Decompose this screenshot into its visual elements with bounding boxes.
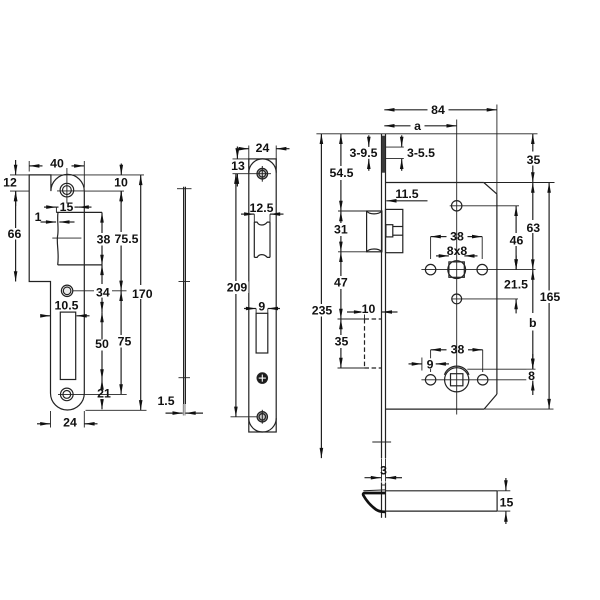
svg-text:84: 84: [431, 103, 445, 117]
case faceplate adjustable dark strip: [382, 136, 385, 173]
svg-text:15: 15: [60, 200, 74, 214]
dim 3-9.5: [347, 135, 381, 171]
svg-text:209: 209: [227, 281, 248, 295]
svg-text:13: 13: [231, 159, 245, 173]
svg-text:31: 31: [334, 223, 348, 237]
svg-text:24: 24: [63, 415, 77, 429]
svg-text:66: 66: [8, 227, 22, 241]
faceplate latch cutout: [254, 222, 270, 257]
svg-text:24: 24: [256, 141, 270, 155]
profile case bar: [386, 491, 498, 511]
dim 11.5: [386, 187, 427, 201]
strike bottom screw hole: [58, 388, 127, 401]
faceplate deadbolt slot: [256, 313, 268, 353]
svg-text:38: 38: [450, 230, 464, 244]
dim 84: [384, 103, 497, 117]
svg-text:3-5.5: 3-5.5: [407, 146, 435, 160]
svg-text:35: 35: [335, 335, 349, 349]
svg-text:38: 38: [451, 343, 465, 357]
strike extension lines: [10, 161, 147, 428]
dim 66: [6, 191, 25, 281]
dim 8x8: [436, 244, 478, 258]
svg-text:165: 165: [540, 290, 561, 304]
strike top screw hole: [57, 168, 84, 204]
follower hub: [448, 261, 466, 279]
svg-text:1: 1: [35, 210, 42, 224]
faceplate extension lines: [231, 146, 277, 417]
svg-text:10.5: 10.5: [55, 299, 79, 313]
dim 1.5: [157, 394, 203, 413]
dim 21.5: [503, 256, 530, 314]
dim b: [527, 270, 539, 370]
dim 235: [310, 134, 334, 458]
faceplate bottom screw hole: [257, 410, 267, 424]
svg-text:75: 75: [118, 335, 132, 349]
case extension lines: [338, 105, 555, 415]
svg-text:10: 10: [114, 176, 128, 190]
dim 3-5.5: [402, 135, 435, 171]
dim a: [384, 119, 456, 133]
svg-text:54.5: 54.5: [330, 166, 354, 180]
svg-text:170: 170: [132, 287, 153, 301]
dim 24 bottom: [37, 415, 98, 429]
profile bent lip: [363, 490, 385, 512]
dim 165: [538, 183, 563, 410]
dim 9: [409, 358, 450, 372]
dim 40: [29, 156, 84, 170]
dim 35 top right: [525, 134, 543, 183]
svg-text:38: 38: [97, 233, 111, 247]
case lower small hole: [452, 294, 462, 304]
case outline: [386, 183, 497, 410]
dim 38 upper: [431, 230, 483, 244]
cylinder side holes: [425, 375, 488, 385]
svg-text:9: 9: [427, 358, 434, 372]
dim 10.5: [42, 299, 90, 316]
dim 12: [3, 160, 17, 206]
strike side view plate: [183, 187, 185, 416]
svg-text:3: 3: [380, 464, 387, 478]
svg-text:46: 46: [510, 234, 524, 248]
dim chain 75.5/75 line: [113, 191, 140, 394]
dim 46: [507, 206, 526, 270]
dim 1: [35, 210, 75, 224]
deadbolt dashed: [365, 319, 382, 368]
faceplate outline: [249, 159, 276, 432]
svg-text:15: 15: [500, 495, 514, 509]
dim 10: [114, 164, 128, 203]
svg-text:10: 10: [362, 302, 376, 316]
dim 9 faceplate slot: [244, 300, 280, 314]
dim 38 lower: [431, 343, 483, 357]
case faceplate edge view: [372, 134, 391, 458]
dim 13: [230, 147, 247, 187]
dim 15: [497, 478, 513, 524]
strike middle screw hole: [61, 285, 126, 296]
dim 8: [526, 354, 537, 395]
latch bolt head: [367, 211, 382, 252]
dim 10 deadbolt: [347, 302, 398, 316]
svg-text:75.5: 75.5: [115, 232, 139, 246]
dim 15: [44, 200, 92, 214]
svg-text:12.5: 12.5: [250, 201, 274, 215]
dim 3 bottom: [365, 459, 403, 482]
svg-text:3-9.5: 3-9.5: [349, 146, 377, 160]
svg-text:47: 47: [334, 276, 348, 290]
dim 209: [225, 174, 249, 417]
dim chain 38/34/50/21 line: [94, 212, 112, 409]
svg-text:b: b: [529, 316, 537, 330]
svg-text:34: 34: [96, 286, 110, 300]
svg-text:21: 21: [97, 387, 111, 401]
dim chain 54.5/31/47/35 line: [327, 134, 357, 368]
case upper hole: [452, 201, 462, 211]
svg-text:35: 35: [527, 153, 541, 167]
case strike tab lines: [386, 147, 404, 159]
follower side holes: [425, 264, 487, 274]
svg-text:40: 40: [50, 156, 64, 170]
svg-text:1.5: 1.5: [157, 394, 174, 408]
svg-text:235: 235: [312, 304, 333, 318]
svg-text:63: 63: [526, 221, 540, 235]
cylinder hub: [444, 366, 469, 392]
dim 12.5: [241, 201, 284, 215]
strike latch opening: [52, 212, 102, 265]
svg-text:a: a: [414, 119, 421, 133]
svg-text:11.5: 11.5: [395, 187, 418, 201]
svg-text:21.5: 21.5: [504, 278, 528, 292]
latch bolt tail: [386, 209, 403, 252]
dim 24 top: [236, 141, 290, 155]
strike side view ticks: [177, 189, 192, 378]
dim 170: [131, 175, 154, 410]
svg-text:50: 50: [95, 337, 109, 351]
faceplate top screw hole: [257, 166, 268, 182]
svg-text:8: 8: [528, 369, 535, 383]
strike deadbolt slot: [60, 312, 75, 379]
svg-text:12: 12: [3, 176, 17, 190]
dim 63: [525, 183, 543, 270]
faceplate spindle hole: [257, 373, 267, 383]
strike plate outline: [29, 174, 84, 410]
profile faceplate: [382, 483, 386, 518]
svg-text:9: 9: [258, 300, 265, 314]
case top edge line: [316, 133, 537, 135]
